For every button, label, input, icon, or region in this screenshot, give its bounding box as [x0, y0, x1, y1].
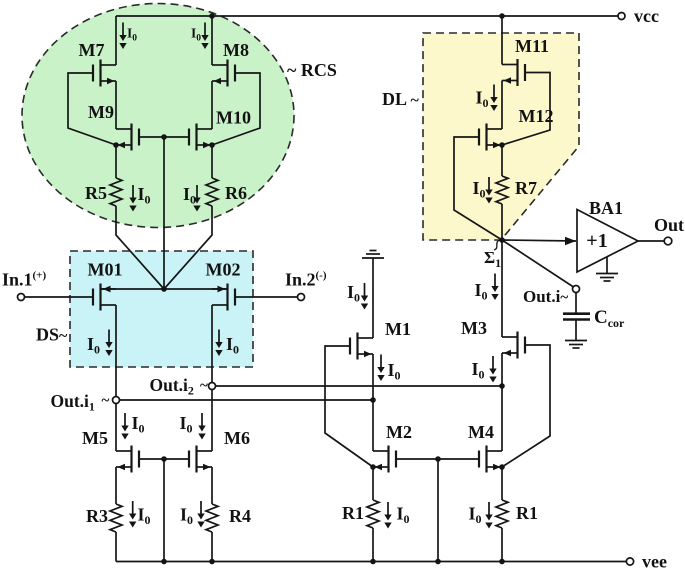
wire R7 to Sigma1	[501, 204, 503, 240]
transistor M2	[373, 446, 396, 473]
current arrow I0 below Sigma1	[491, 274, 498, 301]
current arrow I0 above M1	[361, 283, 368, 310]
wire M10 source to R6	[211, 145, 213, 178]
arrow at M01 source	[103, 286, 111, 293]
svg-text:R3: R3	[86, 506, 108, 526]
wire M5-M6 gate line	[139, 458, 189, 460]
svg-text:M02: M02	[206, 260, 241, 280]
wire M2-M4 gate to vee	[437, 459, 439, 562]
current arrow I0 M7 branch	[119, 23, 126, 50]
node M9-M10 gates	[161, 134, 167, 140]
wire Out.i1 to M5 drain	[115, 404, 117, 452]
svg-text:vee: vee	[642, 552, 667, 568]
ground above M1	[362, 251, 384, 259]
wire BA1 output	[638, 240, 664, 242]
resistor R1 right	[496, 500, 508, 528]
svg-text:~: ~	[200, 378, 208, 394]
current arrow I0 R6	[193, 185, 200, 212]
current arrow I0 R4	[197, 501, 204, 528]
wire M2-M4 gate line	[396, 458, 479, 460]
node Out.i2-M3	[499, 383, 505, 389]
node M9 source	[113, 142, 119, 148]
svg-text:I0: I0	[180, 505, 193, 528]
terminal In.2	[298, 294, 305, 301]
label Sigma1 tilde	[494, 238, 502, 250]
svg-text:M9: M9	[88, 102, 114, 122]
wire M5-M6 gate to vee	[163, 459, 165, 562]
terminal In.1	[18, 294, 25, 301]
arrow at M02 source	[218, 286, 226, 293]
resistor R1 left	[367, 500, 379, 528]
svg-text:Σ1: Σ1	[484, 248, 501, 270]
svg-text:M7: M7	[79, 40, 105, 60]
node M4 source	[499, 464, 505, 470]
wire Out.i2 to M6 drain	[211, 390, 213, 452]
svg-text:I0: I0	[132, 413, 145, 436]
wire M7 drain riser	[115, 16, 117, 65]
node M12 source	[499, 142, 505, 148]
transistor M7	[93, 60, 116, 87]
svg-text:M01: M01	[88, 260, 123, 280]
transistor M3	[502, 332, 525, 359]
svg-text:Out.i~: Out.i~	[523, 287, 568, 306]
transistor M9	[116, 124, 139, 151]
svg-text:Ccor: Ccor	[594, 307, 625, 330]
region fill DS (cyan rectangle)	[70, 251, 253, 367]
svg-text:+1: +1	[586, 230, 607, 252]
wire In.1 lead	[25, 296, 94, 298]
svg-text:M12: M12	[519, 106, 554, 126]
wire M11 drain riser	[501, 16, 503, 65]
svg-text:R5: R5	[85, 183, 107, 203]
node M2 source	[370, 464, 376, 470]
current arrow I0 M02	[215, 330, 222, 357]
transistor M02	[212, 284, 235, 311]
current arrow I0 M6	[198, 413, 205, 440]
svg-text:M8: M8	[223, 40, 249, 60]
wire BA1 ground stem	[606, 257, 608, 273]
svg-text:R1: R1	[342, 503, 364, 523]
wire M8 source to M10 drain	[211, 81, 213, 129]
resistor R4	[206, 504, 218, 532]
resistor R3	[110, 504, 122, 532]
wire M1 source to M2 drain	[372, 354, 374, 451]
node M10 source	[209, 142, 215, 148]
wire M12 source to R7	[501, 145, 503, 176]
wire M5 source to R3	[115, 467, 117, 504]
node vee-R4	[209, 559, 215, 565]
transistor M01	[93, 284, 116, 311]
svg-text:BA1: BA1	[589, 198, 623, 218]
wire Sigma1 node down to M3 drain	[501, 240, 503, 337]
wire M01 drain down	[115, 305, 117, 397]
svg-text:M6: M6	[224, 428, 250, 448]
wire ground to M1 drain	[372, 258, 374, 338]
wire M3 source to M4 drain	[501, 353, 503, 451]
wire R4 to vee	[211, 532, 213, 562]
transistor M5	[116, 446, 139, 473]
svg-text:Out: Out	[654, 215, 684, 235]
terminal Out.i	[573, 286, 580, 293]
wire M7 source to M9 drain	[115, 81, 117, 129]
svg-text:I0: I0	[347, 282, 360, 305]
svg-text:R6: R6	[225, 183, 247, 203]
terminal Out.i2	[209, 383, 216, 390]
arrowheads on M01-M02 source line	[103, 237, 576, 292]
wire M7 gate to M9 source	[68, 73, 116, 145]
svg-text:R7: R7	[515, 178, 537, 198]
resistor R5	[110, 178, 122, 206]
current arrows I0	[105, 23, 498, 529]
svg-text:M2: M2	[386, 422, 412, 442]
transistor M8	[212, 60, 235, 87]
wire center tail from gates to DS node	[163, 137, 165, 289]
current arrow I0 M11-M12	[490, 85, 497, 112]
wire M11 gate loop	[502, 73, 550, 146]
svg-text:I0: I0	[180, 413, 193, 436]
wire M1 gate to M2 source	[325, 346, 373, 467]
node vcc-M8	[209, 13, 215, 19]
node vee-tail	[161, 559, 167, 565]
svg-text:M3: M3	[461, 318, 487, 338]
wire vcc rail	[116, 15, 618, 17]
wire R1 left to vee	[372, 528, 374, 562]
wire Sigma1 to BA1 input	[502, 240, 576, 241]
wire M9-M10 gate line	[139, 136, 189, 138]
current arrow I0 above M4	[489, 356, 496, 383]
node vee-R1L	[370, 559, 376, 565]
wire M11 source to M12 drain	[501, 81, 503, 130]
resistor R7	[496, 176, 508, 204]
wire M3 gate to M4 source	[502, 345, 550, 467]
arrow into BA1 input	[565, 237, 576, 245]
node A tail	[161, 286, 167, 292]
wire R3 to vee	[115, 532, 117, 562]
svg-text:I0: I0	[469, 504, 482, 527]
wire capacitor to ground	[575, 320, 577, 341]
wire Out.i1 horizontal	[120, 399, 374, 401]
svg-text:M4: M4	[468, 422, 494, 442]
svg-text:Out.i1: Out.i1	[51, 391, 95, 414]
svg-text:DL ~: DL ~	[382, 89, 420, 109]
svg-text:DS~: DS~	[36, 325, 68, 345]
wire vee rail	[116, 561, 627, 563]
wire Out.i to capacitor	[575, 293, 577, 314]
ground below Ccor	[565, 341, 587, 349]
current arrow I0 R3	[129, 501, 136, 528]
wire M01-M02 common source line	[101, 288, 228, 290]
resistor R6	[206, 178, 218, 206]
node vcc-M11	[499, 13, 505, 19]
svg-text:Out.i2: Out.i2	[150, 375, 194, 398]
svg-text:M1: M1	[385, 319, 411, 339]
wire M9 source to R5	[115, 145, 117, 178]
wire In.2 lead	[235, 296, 298, 298]
ground at BA1	[596, 274, 618, 282]
transistor M4	[479, 446, 502, 473]
op-amp buffer BA1	[577, 210, 638, 273]
terminal Out	[664, 237, 672, 245]
current arrow I0 R1 right	[485, 502, 492, 529]
svg-text:R1: R1	[516, 503, 538, 523]
wire R1 right to vee	[501, 528, 503, 562]
wire M8 gate to M10 source	[212, 73, 260, 145]
node Out.i1-M2	[370, 397, 376, 403]
current arrow I0 R7	[485, 177, 492, 204]
terminal vcc	[618, 13, 625, 20]
current arrow I0 R1 left	[384, 502, 391, 529]
current arrow I0 below M1	[377, 355, 384, 382]
node vee-gates	[435, 559, 441, 565]
transistor M10	[189, 124, 212, 151]
svg-text:I0: I0	[472, 359, 485, 382]
capacitor Ccor	[563, 314, 590, 320]
current arrow I0 M5	[121, 413, 128, 440]
svg-text:I0: I0	[388, 360, 401, 383]
wire R6 bottom diagonal to node A	[164, 206, 212, 289]
wire M12 gate to Sigma1	[454, 137, 502, 240]
wire R5 bottom diagonal to node A	[116, 206, 164, 289]
node M2-M4 gates	[435, 456, 441, 462]
svg-text:vcc: vcc	[634, 6, 659, 26]
svg-text:R4: R4	[229, 506, 251, 526]
transistor M1	[350, 333, 373, 360]
wire M4 source to R1 right	[501, 467, 503, 500]
transistors	[93, 59, 525, 473]
current arrow I0 M01	[105, 330, 112, 357]
svg-text:M11: M11	[515, 36, 549, 56]
svg-text:~: ~	[102, 393, 110, 409]
region fill DL (yellow polygon)	[423, 33, 579, 240]
wire Out.i2 horizontal	[216, 385, 503, 387]
svg-text:In.2(-): In.2(-)	[285, 270, 327, 290]
svg-text:M10: M10	[216, 108, 251, 128]
terminal Out.i1	[113, 397, 120, 404]
svg-text:In.1(+): In.1(+)	[2, 270, 46, 290]
svg-text:~ RCS: ~ RCS	[287, 60, 337, 80]
svg-text:I0: I0	[397, 504, 410, 527]
transistor M11	[502, 59, 525, 86]
current arrow I0 R5	[129, 185, 136, 212]
wire M02 drain down	[211, 305, 213, 383]
region fill RCS (green ellipse)	[22, 4, 294, 228]
node M5-M6 gates	[161, 456, 167, 462]
wire M2 source to R1 left	[372, 467, 374, 500]
node Sigma1	[499, 237, 505, 243]
transistor M12	[479, 124, 502, 151]
current arrow I0 M8 branch	[201, 23, 208, 50]
terminal vee	[626, 558, 633, 565]
wire Sigma1 to Out.i	[502, 240, 574, 287]
svg-text:I0: I0	[475, 280, 488, 303]
node vee-R1R	[499, 559, 505, 565]
wire M6 source to R4	[211, 467, 213, 504]
svg-text:I0: I0	[138, 505, 151, 528]
svg-text:M5: M5	[82, 428, 108, 448]
wire M8 drain riser	[211, 16, 213, 65]
transistor M6	[189, 446, 212, 473]
